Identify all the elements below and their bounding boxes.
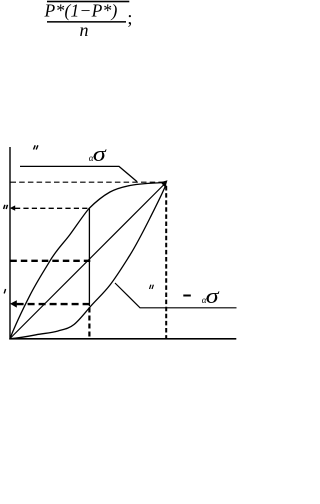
lower ogive curve [10,185,166,339]
node T arrow [161,180,168,187]
svg-text:;: ; [127,8,132,29]
label n-mark left of axis [4,205,8,209]
x-axis [9,338,236,340]
dashed line 2 (thin, y=208.3) [15,207,90,209]
vertical construction line x=89.4 solid part [88,208,90,306]
diagonal line O-T [10,185,164,339]
svg-text:P*(1−P*): P*(1−P*) [44,0,118,20]
vertical construction line x=89.4 dashed part [88,308,90,339]
sigma leader line top [20,166,137,181]
apostrophe label left of axis [4,289,5,293]
y-axis [9,147,10,340]
svg-text:n: n [80,20,89,40]
formula fraction bar [47,21,126,23]
arrow left on bold dashed line 4 [10,300,17,307]
arrow left on dashed line 2 [10,205,15,210]
label minus alpha-sigma bottom [183,295,191,297]
dashed line P (thin, y=182) [11,181,167,183]
svg-text:σ: σ [206,285,220,309]
label double-prime top [34,145,38,149]
formula overline [47,1,129,3]
upper ogive curve [10,183,166,339]
svg-text:σ: σ [93,143,107,167]
minus-sigma leader line bottom [115,283,237,308]
tiny double-prime near vertical dashed [150,285,154,289]
vertical dashed line at T (x=166) [165,186,167,339]
bold dashed line 4 (y=304.3) [17,303,91,305]
bold dashed line 3 (y=260.8) [10,260,90,262]
